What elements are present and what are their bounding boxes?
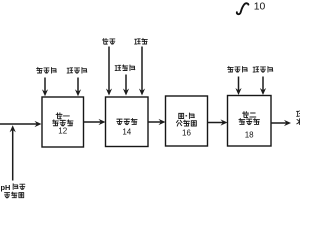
- process box: solid-liquid separator (固-液分离器) 16: [166, 96, 208, 146]
- box3 text line2 分离器: [176, 120, 196, 126]
- label 氧化剂 (oxidizer) above box1: [37, 67, 57, 73]
- box3 text line1 固-液: [179, 113, 195, 119]
- figure reference leader curve: [237, 3, 249, 14]
- wire: box1 to box2: [84, 119, 106, 125]
- label (clipped) treated water output 经/水: [297, 111, 303, 125]
- box2 text line1 软化罐: [117, 118, 137, 124]
- svg-text:14: 14: [122, 127, 131, 136]
- label 石灰 (lime): [102, 38, 114, 44]
- svg-text:12: 12: [58, 127, 67, 136]
- box4 text line2 氧化罐: [239, 118, 260, 124]
- wire: catalyst into box4: [260, 77, 266, 96]
- box1 text line2 氧化罐: [52, 120, 73, 126]
- process box: first oxidation tank (第一氧化罐) 12: [42, 97, 84, 147]
- process box: second oxidation tank (第二氧化罐) 18: [228, 96, 272, 147]
- label 化学品 (chemical): [5, 192, 24, 198]
- svg-text:10: 10: [254, 1, 266, 12]
- box1 text line1 第一: [56, 113, 69, 119]
- svg-text:18: 18: [245, 131, 254, 140]
- wire: coagulant into box2: [123, 75, 129, 96]
- process box: softening tank (软化罐) 14: [106, 97, 149, 147]
- label pH调节 (pH adjusting): [1, 183, 25, 192]
- wire: soda ash into box2: [139, 47, 145, 96]
- label 催化剂 (catalyst) above box4: [253, 66, 273, 72]
- label 纯碱 (soda ash): [135, 38, 148, 44]
- wire: oxidizer into box4: [235, 77, 241, 96]
- box4 text line1 第二: [243, 112, 256, 118]
- wire: treated water output: [271, 120, 291, 126]
- wire: feed water input into first oxidation tank: [0, 121, 42, 127]
- svg-text:16: 16: [182, 128, 191, 137]
- label 促凝剂 (coagulant): [115, 65, 135, 71]
- svg-text:pH: pH: [1, 183, 11, 192]
- wire: box2 to box3: [148, 119, 166, 125]
- wire: pH adjusting chemical feed (upward arrow): [10, 125, 16, 180]
- wire: box3 to box4: [208, 119, 228, 125]
- wire: oxidizer into box1: [42, 78, 48, 97]
- label 催化剂 (catalyst) above box1: [67, 67, 87, 73]
- wire: lime into box2: [106, 47, 112, 96]
- label 氧化剂 (oxidizer) above box4: [228, 66, 248, 72]
- wire: catalyst into box1: [75, 78, 81, 97]
